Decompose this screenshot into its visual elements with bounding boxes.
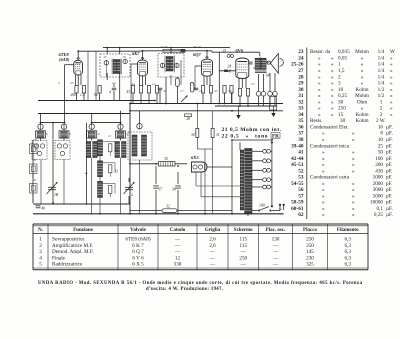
variable capacitor C1 tuning	[48, 186, 56, 188]
svg-text:38: 38	[298, 137, 304, 143]
tube V5 6X5 rectifier	[192, 162, 208, 172]
wire 6Q7 leads	[203, 76, 205, 85]
wire resistor row drops mid	[132, 93, 134, 104]
junction dot 8	[154, 100, 156, 102]
wire heater bus	[130, 110, 283, 112]
svg-text:3: 3	[39, 249, 42, 255]
svg-text:37: 37	[298, 131, 304, 137]
svg-text:32: 32	[166, 205, 170, 209]
svg-text:45: 45	[163, 89, 167, 93]
wire left box 47	[32, 194, 34, 204]
svg-text:6V6: 6V6	[236, 48, 244, 53]
IF transformer T2 winding	[166, 57, 169, 72]
junction dot 25	[155, 213, 157, 215]
svg-text:1: 1	[338, 62, 341, 68]
junction dot 10	[196, 103, 198, 105]
svg-text:~: ~	[279, 207, 282, 213]
output jack J1	[256, 91, 261, 96]
wire 6K7 left stub	[131, 63, 138, 65]
svg-text:Griglia: Griglia	[205, 228, 221, 233]
junction dot 3	[106, 47, 108, 49]
resistor beside coil 3	[109, 185, 112, 193]
svg-text:16: 16	[122, 55, 126, 59]
wire speaker field	[258, 74, 260, 91]
svg-text:2: 2	[131, 193, 133, 197]
resistor row item 8	[201, 86, 204, 94]
svg-text:31: 31	[298, 93, 304, 99]
svg-text:»: »	[322, 200, 325, 206]
resistor R31	[211, 128, 214, 137]
svg-text:16: 16	[378, 124, 384, 130]
svg-text:47: 47	[33, 178, 37, 182]
svg-text:24: 24	[298, 55, 304, 61]
svg-text:2: 2	[380, 106, 383, 112]
svg-text:1000: 1000	[373, 175, 384, 181]
svg-text:6Q7: 6Q7	[193, 52, 201, 57]
svg-text:Ohm: Ohm	[357, 99, 367, 105]
svg-text:35: 35	[164, 157, 168, 161]
svg-text:»: »	[352, 212, 355, 218]
IF transformer T1 trimmer right	[123, 59, 127, 63]
svg-text:»: »	[318, 81, 321, 87]
svg-text:1/4: 1/4	[378, 55, 385, 61]
svg-text:»: »	[390, 99, 393, 105]
wire jack stems	[258, 96, 260, 106]
svg-text:W: W	[390, 49, 395, 55]
capacitor C20	[224, 69, 228, 71]
wire R30 R31 join	[197, 148, 212, 150]
parts list divider	[306, 48, 308, 220]
resistor row item 4	[131, 86, 134, 94]
svg-text:33: 33	[298, 106, 304, 112]
wire output transformer top	[259, 52, 261, 56]
svg-text:—: —	[240, 249, 247, 255]
wire rectifier output	[129, 104, 131, 214]
left resistor box 41	[30, 164, 38, 174]
IF transformer T1 shield box	[100, 54, 130, 77]
wire coil drop 2	[91, 114, 93, 125]
wire R31 to ground	[212, 149, 214, 214]
svg-text:Plac. osc.: Plac. osc.	[266, 228, 286, 233]
svg-text:29: 29	[298, 81, 304, 87]
svg-text:42-44: 42-44	[291, 156, 304, 162]
svg-text:0,25: 0,25	[338, 93, 347, 99]
wire 6V6 leads	[238, 79, 240, 89]
wire 6TE8 cathode leads	[75, 75, 77, 85]
svg-text:30: 30	[338, 99, 344, 105]
svg-text:100: 100	[375, 156, 383, 162]
svg-text:36: 36	[172, 188, 176, 192]
svg-text:0,035: 0,035	[338, 49, 350, 55]
svg-text:»: »	[390, 93, 393, 99]
wire 6V6 bias drops	[239, 96, 241, 106]
svg-text:1,5: 1,5	[338, 68, 345, 74]
tap contact 2	[263, 159, 267, 163]
svg-text:330: 330	[174, 262, 182, 268]
wire coil drop 4	[139, 111, 141, 124]
junction dot 35	[247, 105, 249, 107]
resistor 6V6 grid	[238, 89, 241, 97]
svg-text:»: »	[322, 206, 325, 212]
svg-text:3: 3	[338, 81, 341, 87]
padder cores 2	[57, 144, 61, 148]
svg-text:Kohm: Kohm	[356, 118, 369, 124]
coil can 1	[36, 131, 46, 138]
svg-text:»: »	[390, 74, 393, 80]
svg-text:21 0,5 Mohm con int.: 21 0,5 Mohm con int.	[222, 127, 282, 133]
svg-text:Schermo: Schermo	[234, 228, 253, 233]
svg-text:Funzione: Funzione	[73, 228, 94, 233]
wire coil drop 1	[40, 114, 42, 125]
svg-text:Catodo: Catodo	[170, 228, 186, 233]
junction dot 22	[86, 203, 88, 205]
junction dot 24	[129, 213, 131, 215]
svg-text:»: »	[352, 187, 355, 193]
svg-text:8: 8	[380, 131, 383, 137]
wire IF1 bottom	[106, 73, 108, 80]
svg-text:53: 53	[298, 175, 304, 181]
wire trimmer link 2	[92, 122, 121, 124]
svg-text:»: »	[318, 74, 321, 80]
wire left rail	[32, 140, 34, 203]
svg-text:µF.: µF.	[386, 131, 393, 137]
wire IF1 drop	[106, 48, 108, 54]
wire coil stack 3 taps	[103, 182, 116, 184]
resistor row item 1	[75, 86, 78, 94]
svg-text:10: 10	[96, 132, 100, 136]
junction dot 33	[224, 103, 226, 105]
wire transformer HT leads	[239, 142, 241, 150]
resistor row item 2	[82, 86, 85, 94]
tap contact 5	[263, 185, 267, 189]
svg-text:30: 30	[340, 118, 346, 124]
svg-text:52: 52	[298, 168, 304, 174]
svg-text:»: »	[390, 87, 393, 93]
svg-text:Placca: Placca	[303, 228, 317, 233]
svg-text:»: »	[352, 162, 355, 168]
svg-text:41: 41	[33, 158, 37, 162]
svg-text:pF.: pF.	[386, 175, 392, 181]
svg-text:200: 200	[71, 93, 77, 97]
svg-text:»: »	[390, 81, 393, 87]
svg-text:17: 17	[180, 89, 184, 93]
svg-text:60-61: 60-61	[291, 206, 304, 212]
svg-text:6,3: 6,3	[345, 249, 352, 255]
IF transformer T2 shield box	[158, 54, 184, 78]
svg-text:130: 130	[272, 237, 280, 243]
wire IF2 bottom	[165, 77, 167, 104]
junction dot 27	[204, 213, 206, 215]
wire HT mid bus	[130, 103, 283, 105]
band coil 3	[86, 142, 91, 158]
wire taps	[252, 150, 263, 152]
svg-text:Condensatori mica: Condensatori mica	[310, 143, 350, 149]
coil can 2	[59, 131, 69, 138]
svg-text:41: 41	[228, 70, 232, 74]
ground arrow 1	[238, 106, 240, 115]
junction dot 14	[52, 122, 54, 124]
svg-text:2 W.: 2 W.	[376, 118, 386, 124]
svg-text:1/4: 1/4	[378, 74, 385, 80]
svg-text:18: 18	[199, 89, 203, 93]
svg-text:—: —	[272, 243, 279, 249]
resistor beside coil 2	[109, 165, 112, 173]
resistor row item 3	[98, 86, 101, 94]
wire output jack bus	[215, 105, 277, 107]
junction dot 20	[177, 165, 179, 167]
junction dot 19	[155, 163, 157, 165]
junction dot 15	[40, 122, 42, 124]
junction dot 11	[231, 110, 233, 112]
band switch coil stack 1	[98, 140, 103, 156]
svg-text:0,05: 0,05	[338, 55, 347, 61]
svg-text:1B: 1B	[54, 193, 59, 197]
svg-text:70: 70	[33, 138, 37, 142]
svg-text:µF.: µF.	[386, 124, 393, 130]
wire can 1 drop	[40, 138, 42, 140]
svg-text:»: »	[331, 99, 334, 105]
junction dot 30	[231, 139, 233, 141]
wire extra verticals upper	[95, 51, 97, 100]
svg-text:25: 25	[378, 143, 384, 149]
svg-text:»: »	[331, 68, 334, 74]
capacitor C25	[248, 61, 253, 63]
tube V4 6V6	[236, 58, 249, 79]
jack box FR	[270, 97, 277, 111]
svg-text:6,3: 6,3	[345, 243, 352, 249]
svg-text:1/4: 1/4	[378, 81, 385, 87]
band coil 4	[115, 142, 120, 158]
svg-text:6: 6	[46, 132, 48, 136]
svg-text:46,47: 46,47	[193, 45, 201, 50]
svg-text:64: 64	[266, 74, 270, 78]
resistor R30	[196, 128, 199, 137]
svg-text:115: 115	[239, 237, 247, 243]
resistor diode load	[190, 83, 194, 93]
svg-text:»: »	[352, 193, 355, 199]
svg-text:»: »	[361, 68, 364, 74]
junction dot mains	[279, 204, 281, 206]
svg-text:37: 37	[159, 188, 163, 192]
wire AVC bus	[38, 100, 155, 102]
svg-text:»: »	[352, 131, 355, 137]
svg-text:40: 40	[42, 207, 46, 211]
junction dot 23	[52, 202, 54, 204]
wire can 4 drop	[120, 138, 122, 140]
svg-text:»: »	[352, 181, 355, 187]
svg-text:140: 140	[259, 204, 265, 208]
svg-text:6K7: 6K7	[132, 51, 140, 56]
svg-text:19: 19	[228, 89, 232, 93]
svg-text:—: —	[240, 262, 247, 268]
junction dot 34	[239, 105, 241, 107]
svg-text:pF.: pF.	[386, 187, 392, 193]
svg-text:pF.: pF.	[386, 150, 392, 156]
svg-text:»: »	[322, 162, 325, 168]
svg-text:6 X 5: 6 X 5	[132, 262, 144, 268]
svg-text:30: 30	[298, 87, 304, 93]
IF transformer T2 trimmer right	[175, 63, 179, 67]
wire rectifier line	[130, 163, 158, 165]
svg-text:0,1: 0,1	[377, 206, 384, 212]
resistor row item 11	[230, 86, 233, 94]
resistor row item 10	[223, 86, 226, 94]
svg-text:11: 11	[108, 134, 111, 138]
svg-text:6,3: 6,3	[345, 262, 352, 268]
svg-text:Raddrizzatrice: Raddrizzatrice	[52, 262, 83, 268]
svg-text:10: 10	[338, 87, 344, 93]
svg-text:1/4: 1/4	[378, 68, 385, 74]
wire grid-cap 6Q7	[206, 51, 208, 57]
svg-text:2: 2	[338, 74, 341, 80]
svg-text:28: 28	[187, 117, 191, 121]
svg-text:145: 145	[306, 249, 314, 255]
svg-text:»: »	[331, 112, 334, 118]
svg-text:Amplificatrice M.F.: Amplificatrice M.F.	[52, 242, 93, 249]
padder cores 1	[34, 144, 38, 148]
wire top line left	[103, 47, 230, 49]
tube V1 6TE8	[74, 60, 83, 75]
svg-text:3: 3	[58, 81, 60, 85]
svg-text:6,3: 6,3	[345, 237, 352, 243]
svg-text:10000: 10000	[370, 200, 383, 206]
IF transformer T1 winding	[113, 60, 116, 74]
trimmer capacitor coil 3	[89, 124, 94, 129]
svg-text:39-40: 39-40	[291, 143, 304, 149]
junction dot 13	[64, 122, 66, 124]
svg-text:22 0,5 » tono: 22 0,5 » tono	[222, 134, 268, 140]
svg-text:»: »	[352, 156, 355, 162]
resistor R28 boxed	[185, 114, 192, 117]
svg-text:58-59: 58-59	[291, 200, 304, 206]
wire band coil 4 gnd	[120, 158, 122, 214]
svg-text:—: —	[209, 255, 216, 261]
svg-text:45-51: 45-51	[291, 162, 304, 168]
wire gang vertical	[85, 123, 87, 204]
svg-text:»: »	[318, 93, 321, 99]
junction dot 9	[165, 103, 167, 105]
svg-text:250: 250	[306, 243, 314, 249]
svg-text:—: —	[272, 262, 279, 268]
resistor row item 5	[139, 86, 142, 94]
svg-text:»: »	[390, 68, 393, 74]
svg-text:»: »	[361, 74, 364, 80]
table column lines	[47, 224, 49, 270]
svg-text:250: 250	[338, 106, 346, 112]
output jack J2	[268, 91, 273, 96]
junction dot 5	[206, 50, 208, 52]
svg-text:»: »	[390, 112, 393, 118]
wire can 3 drop	[91, 138, 93, 140]
svg-text:µF.: µF.	[386, 206, 393, 212]
wire can 2 drop	[63, 138, 65, 140]
trimmer capacitor coil 1	[38, 124, 43, 129]
svg-text:d’uscita: 4 W. Produzione: 194: d’uscita: 4 W. Produzione: 1947.	[146, 287, 223, 292]
svg-text:N.: N.	[38, 228, 44, 233]
svg-text:1/4: 1/4	[378, 49, 385, 55]
svg-text:2,6: 2,6	[209, 237, 216, 243]
svg-text:42: 42	[132, 82, 136, 86]
svg-text:23: 23	[298, 49, 304, 55]
capacitor C40	[36, 205, 41, 207]
junction dot 28	[231, 213, 233, 215]
oscillator coil box	[128, 132, 152, 160]
junction dot 32	[218, 103, 220, 105]
svg-text:6,3: 6,3	[345, 255, 352, 261]
band switch coil stack 3	[98, 181, 103, 197]
ground arrow 2	[273, 106, 275, 113]
svg-text:pF.: pF.	[386, 162, 392, 168]
svg-text:»: »	[322, 212, 325, 218]
svg-text:»: »	[331, 55, 334, 61]
wire 6V6 grid feed	[218, 52, 220, 103]
svg-text:41: 41	[298, 150, 304, 156]
svg-text:pF.: pF.	[386, 156, 392, 162]
svg-text:—: —	[174, 243, 181, 249]
svg-text:10: 10	[378, 137, 384, 143]
svg-text:Filamento: Filamento	[337, 228, 359, 233]
resistor R35	[159, 162, 176, 166]
junction dot 26	[177, 213, 179, 215]
wire coil stack 2 taps	[103, 162, 116, 164]
svg-text:»: »	[331, 93, 334, 99]
svg-text:9: 9	[87, 147, 89, 151]
junction dot 12	[129, 110, 131, 112]
svg-text:1: 1	[380, 99, 383, 105]
svg-text:12: 12	[152, 82, 156, 86]
svg-text:»: »	[352, 137, 355, 143]
svg-text:»: »	[322, 168, 325, 174]
svg-text:54-55: 54-55	[291, 181, 304, 187]
inline jack on plate line	[227, 54, 230, 57]
svg-text:»: »	[390, 106, 393, 112]
wire coil stack 2	[99, 177, 101, 182]
svg-text:»: »	[331, 74, 334, 80]
svg-text:43: 43	[127, 90, 131, 94]
junction dot 6	[142, 50, 144, 52]
svg-text:»: »	[322, 137, 325, 143]
resistor R32	[162, 209, 177, 213]
svg-text:Valvole: Valvole	[130, 228, 146, 233]
junction dot transformer bottom	[271, 205, 273, 207]
wire var cap 2 drop	[128, 178, 130, 182]
wire left box 41	[32, 174, 34, 178]
svg-text:»: »	[318, 112, 321, 118]
svg-text:»: »	[318, 87, 321, 93]
svg-text:94: 94	[94, 93, 98, 97]
wire top grid line mid	[148, 50, 212, 52]
svg-text:Demod. Ampl. M.F.: Demod. Ampl. M.F.	[52, 249, 94, 255]
ground bus	[33, 213, 284, 215]
svg-text:4: 4	[109, 91, 111, 95]
resistor beside coil 1	[109, 144, 112, 152]
svg-text:0,25: 0,25	[374, 212, 383, 218]
svg-text:115: 115	[239, 243, 247, 249]
svg-text:»: »	[390, 55, 393, 61]
wire coil stack 1 taps	[103, 141, 116, 143]
svg-text:47: 47	[214, 89, 218, 93]
svg-text:Finale: Finale	[52, 255, 66, 261]
svg-text:»: »	[322, 193, 325, 199]
wire filter caps drops	[155, 166, 157, 184]
svg-text:—: —	[209, 262, 216, 268]
wire left ground bus	[33, 203, 130, 205]
wire filament return	[130, 210, 162, 212]
svg-text:»: »	[331, 87, 334, 93]
wire left box 70	[32, 154, 34, 158]
junction dot 4	[119, 47, 121, 49]
svg-text:23: 23	[70, 81, 74, 85]
